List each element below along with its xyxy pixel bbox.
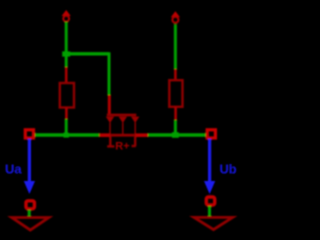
- source arrow Ua: [24, 139, 35, 194]
- wire left vcc down: [65, 22, 68, 68]
- wire stub right gnd: [208, 206, 211, 217]
- sensor element center: [99, 95, 148, 152]
- resistor Ra left: [60, 67, 74, 119]
- node junction rail right: [172, 132, 179, 138]
- wire junction to center: [66, 52, 109, 55]
- node B: [207, 130, 215, 138]
- ground right: [194, 217, 233, 229]
- svg-text:R+: R+: [115, 140, 129, 152]
- arrow 2: [119, 117, 127, 123]
- pin top: [108, 95, 111, 115]
- arrow 3: [131, 117, 139, 123]
- wire center down: [108, 52, 111, 95]
- source arrow Ub: [204, 139, 215, 194]
- wire right vcc down: [174, 24, 177, 69]
- wire stub left gnd: [28, 210, 31, 217]
- node pad left gnd: [26, 201, 34, 209]
- left foot: [109, 135, 111, 146]
- node A: [25, 130, 33, 138]
- wire resistor left to rail: [65, 119, 68, 136]
- ground left: [12, 218, 49, 231]
- right foot: [134, 135, 136, 146]
- wire resistor right to rail: [174, 120, 177, 136]
- power symbol V+ right: [171, 11, 180, 23]
- node junction left vcc: [62, 51, 70, 56]
- svg-text:Ua: Ua: [5, 162, 22, 177]
- pin left: [99, 133, 110, 137]
- internal line: [109, 134, 137, 137]
- resistor Rb right: [169, 69, 182, 120]
- node junction rail left: [64, 133, 69, 138]
- wire rail right: [148, 133, 207, 137]
- svg-text:Ub: Ub: [220, 161, 237, 176]
- wire rail left: [34, 133, 100, 137]
- pin right: [135, 133, 148, 137]
- node pad right gnd: [206, 197, 214, 205]
- power symbol V+ left: [62, 10, 71, 22]
- top bar: [107, 114, 137, 117]
- arrow 1: [106, 117, 114, 123]
